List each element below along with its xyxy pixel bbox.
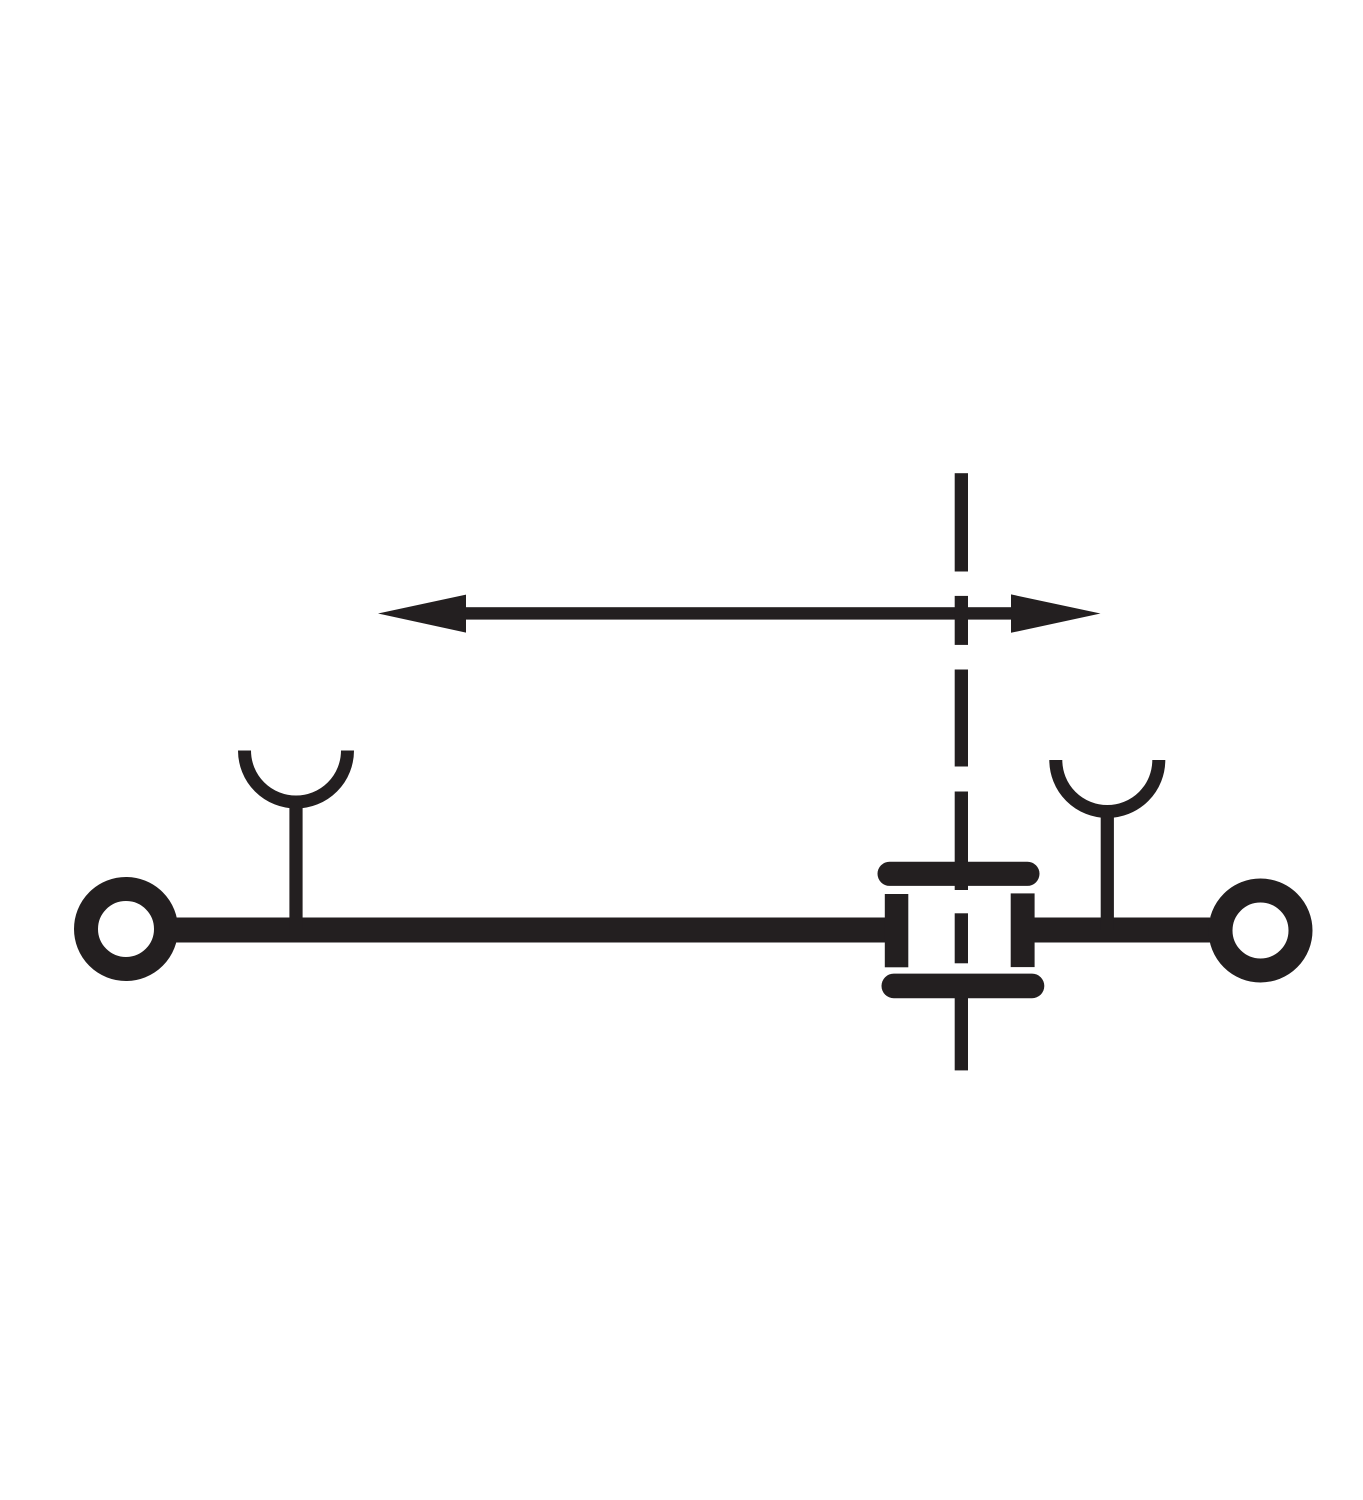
dashed separation line segment 1 — [955, 473, 968, 571]
terminal ring right (socket contact) — [1221, 891, 1301, 971]
plug bridge upper bar — [878, 862, 1040, 886]
dashed separation line segment 3 — [955, 670, 968, 767]
slide-link arrow shaft (disconnect direction) — [462, 607, 1014, 619]
dashed separation line segment 4 (through upper plug bar) — [955, 792, 968, 891]
dashed separation line segment 2 — [955, 596, 968, 645]
arrowhead left — [378, 595, 466, 633]
wire left segment (left ring to plug block) — [170, 918, 886, 943]
plug bridge lower bar — [882, 974, 1045, 999]
plug contact right blade — [1011, 893, 1035, 967]
dashed separation line segment 6 (below lower plug bar) — [955, 997, 968, 1070]
test tap stem T2 — [1101, 810, 1114, 930]
test tap stem T1 — [289, 800, 302, 930]
arrowhead right — [1011, 594, 1101, 632]
test tap fork T2 (right potential test socket) — [1056, 760, 1159, 812]
terminal ring left (socket contact) — [86, 889, 166, 969]
test tap fork T1 (left potential test socket) — [245, 751, 348, 803]
dashed separation line segment 5 — [955, 913, 968, 963]
wire right segment (plug block to right ring) — [1034, 918, 1210, 943]
plug contact left blade — [885, 894, 909, 967]
